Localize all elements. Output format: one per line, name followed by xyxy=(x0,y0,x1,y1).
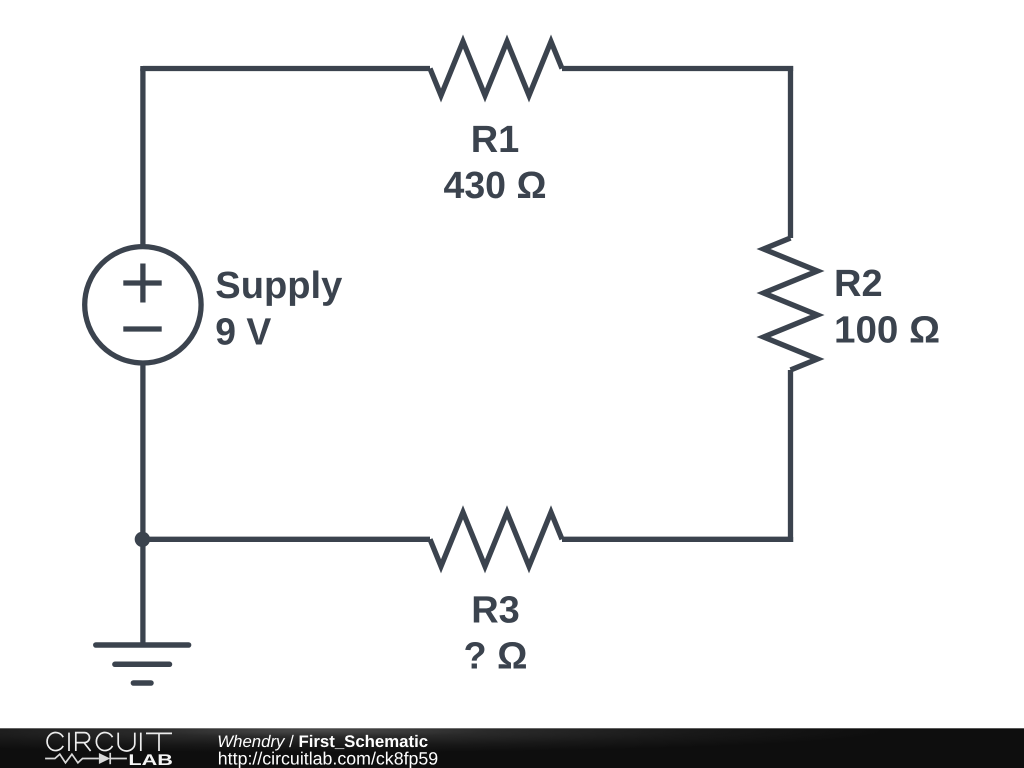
wire: right vertical lower (R2 bottom lead to bottom-right corner) xyxy=(788,370,791,539)
ground symbol bars xyxy=(96,645,189,683)
logo letter R xyxy=(76,733,91,751)
svg-text:LAB: LAB xyxy=(128,752,173,768)
svg-text:100 Ω: 100 Ω xyxy=(834,309,940,351)
wire: right vertical upper (corner down to R2 top lead) xyxy=(788,66,793,238)
V1 plus sign xyxy=(123,280,161,285)
svg-text:R3: R3 xyxy=(471,590,520,632)
resistor R3 zigzag xyxy=(430,512,562,566)
logo mini schematic wire after diode xyxy=(110,758,127,760)
logo letter I xyxy=(140,733,142,751)
wire: top-left vertical from top rail down to V1 top terminal xyxy=(140,69,145,248)
logo letter C xyxy=(96,733,112,751)
resistor R1 zigzag xyxy=(430,42,562,96)
wire: top rail right segment (R1 right lead to top-right corner) xyxy=(562,69,791,72)
logo letter C xyxy=(47,733,63,751)
wire: top rail left segment (corner to R1 left lead) xyxy=(143,66,430,69)
CircuitLab logo wordmark CIRCUIT (drawn strokes) xyxy=(47,733,172,751)
logo mini schematic diode cathode bar xyxy=(109,753,111,764)
svg-text:R1: R1 xyxy=(471,119,520,161)
logo letter T xyxy=(146,733,172,751)
wire: node stub down to ground symbol xyxy=(140,539,145,645)
resistor R2 zigzag xyxy=(764,238,818,370)
svg-text:http://circuitlab.com/ck8fp59: http://circuitlab.com/ck8fp59 xyxy=(218,749,439,768)
svg-text:Supply: Supply xyxy=(215,265,342,307)
svg-text:9 V: 9 V xyxy=(215,311,272,353)
node junction dot xyxy=(135,532,150,547)
svg-text:? Ω: ? Ω xyxy=(464,636,528,678)
wire: left vertical from V1 bottom terminal to ground node xyxy=(140,363,145,539)
V1 minus sign xyxy=(123,326,161,331)
logo mini schematic diode triangle xyxy=(99,753,110,764)
logo letter U xyxy=(118,733,135,751)
svg-text:430 Ω: 430 Ω xyxy=(444,165,547,207)
wire: bottom rail left segment (node to R3 left lead) xyxy=(143,537,430,542)
CircuitLab logo mini schematic wire + resistor xyxy=(45,753,127,764)
logo letter I xyxy=(68,733,70,751)
svg-text:R2: R2 xyxy=(834,263,883,305)
voltage source V1 circle xyxy=(85,247,201,363)
wire: bottom rail right segment (R3 right lead to bottom-right corner) xyxy=(562,537,791,539)
